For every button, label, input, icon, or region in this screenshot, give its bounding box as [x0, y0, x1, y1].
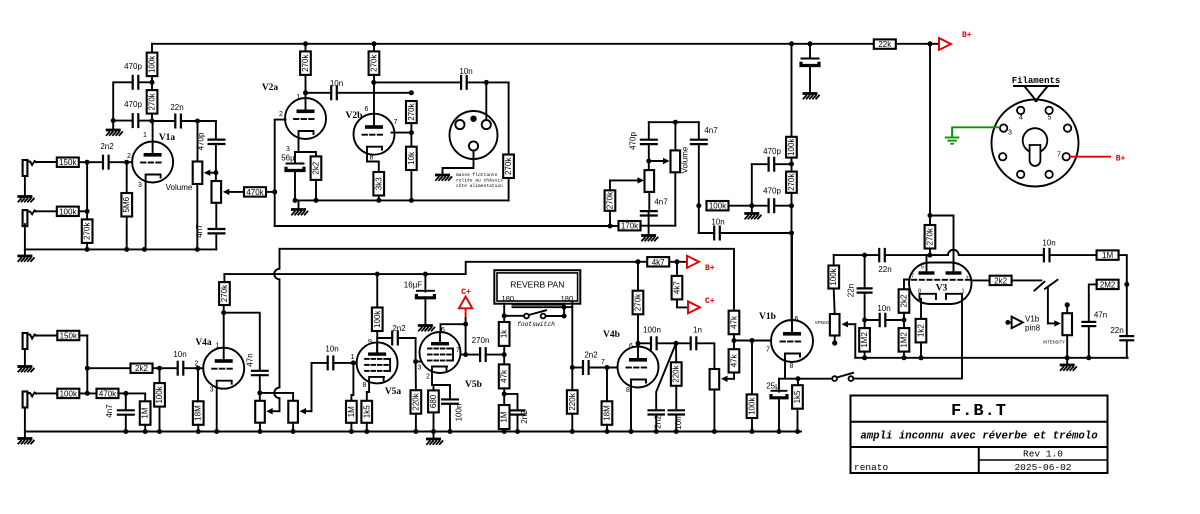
wire 270k V4b top [637, 262, 639, 291]
label 4n7 tone [195, 224, 204, 238]
svg-text:470p: 470p [629, 132, 638, 150]
svg-text:1M: 1M [141, 407, 150, 418]
wire V2b grid [392, 132, 412, 134]
svg-text:2n2: 2n2 [654, 415, 663, 429]
svg-text:F.B.T: F.B.T [951, 402, 1007, 421]
wire break to intensity [1047, 288, 1049, 324]
ground divider [744, 214, 761, 220]
svg-text:170k: 170k [621, 222, 639, 231]
node div2 [789, 203, 794, 208]
wire fb gnd stub [112, 121, 114, 130]
pin 7 V1b [766, 347, 770, 354]
label 22n trem inline [878, 265, 891, 274]
wire 2n2 to bus [517, 415, 519, 432]
svg-text:100n: 100n [455, 404, 464, 422]
socket pin upper right [1064, 124, 1071, 131]
resistor 10k V2b grid lower [406, 147, 417, 170]
resistor 2M2 trem [1097, 280, 1119, 290]
node div3 [789, 231, 794, 236]
node osc A [862, 318, 867, 323]
capacitor 100n V4b [651, 336, 657, 350]
wire gnd col mid [751, 164, 753, 206]
capacitor 4n7 tone [208, 229, 226, 233]
wire xlr pin drop [485, 82, 487, 120]
wire jack4 to 100k [36, 392, 57, 394]
potentiometer tone V1a [212, 181, 222, 203]
svg-text:270k: 270k [370, 53, 379, 71]
capacitor 470p div lower [769, 198, 775, 213]
node bus 1k2 [919, 355, 924, 360]
svg-text:10n: 10n [877, 304, 890, 313]
resistor 100k mid [707, 201, 729, 211]
label V2a [262, 83, 279, 93]
label 100n V4b [643, 326, 661, 335]
triode V1b [771, 320, 813, 362]
node V1b cathode [796, 376, 801, 381]
label V4a [195, 338, 212, 348]
potentiometer mid tone [645, 170, 655, 192]
label masse flottante l1 [456, 172, 498, 178]
svg-text:1M2: 1M2 [860, 332, 869, 348]
wire 1M V5a lead [351, 363, 353, 401]
svg-text:V2b: V2b [346, 111, 363, 121]
capacitor 470p mid [640, 140, 658, 144]
resistor 150k input3 [57, 331, 79, 341]
label INTENSITY [1043, 340, 1065, 345]
wire V2a grid riser [275, 120, 286, 226]
wire 1k2 lead [920, 299, 922, 319]
wire 680 top [433, 385, 435, 390]
wire volume pot bottom [196, 184, 198, 249]
capacitor 470p div upper [769, 157, 775, 172]
svg-text:V1a: V1a [159, 133, 176, 143]
svg-text:INTENSITY: INTENSITY [1043, 340, 1065, 345]
label masse flottante l3 [456, 183, 503, 189]
capacitor 16uF [416, 291, 434, 298]
node V2a plate [303, 90, 308, 95]
wire 2k2 row [87, 367, 130, 369]
wire V1b plate lead [791, 233, 793, 331]
wire 470k to node2 [118, 392, 126, 394]
resistor 4k7 supply [647, 257, 669, 267]
wiper arrow send pot [266, 408, 279, 414]
resistor 1M reverb [499, 405, 510, 429]
node bus 2n2 reverb [515, 429, 520, 434]
wire 170k run [610, 225, 619, 227]
wire mix pot bottom [713, 390, 715, 432]
svg-text:22n: 22n [878, 265, 891, 274]
node V5a grid [351, 360, 356, 365]
ground feedback caps [106, 130, 123, 136]
wire 10n to grid [183, 367, 203, 369]
svg-text:100k: 100k [148, 55, 157, 73]
pin 8 V2b [370, 155, 374, 162]
svg-text:2: 2 [279, 111, 283, 118]
wire 4n7 stem [125, 393, 127, 408]
wire 270n to column [486, 354, 505, 356]
wire 5M6 leads [126, 162, 128, 193]
node rail 10k [409, 198, 414, 203]
wire 2k2 to node [903, 313, 905, 328]
svg-text:1k2: 1k2 [917, 324, 926, 337]
node bus 680 [431, 429, 436, 434]
resistor 220k V4b out [671, 362, 682, 386]
wire 22n right to bus [1126, 340, 1128, 358]
wire V4a plate lead [223, 313, 225, 348]
capacitor 22n trem inline [879, 248, 885, 263]
svg-text:1M: 1M [1102, 251, 1113, 260]
label 4n7 upper [704, 126, 718, 135]
node bus 1M V5a [349, 429, 354, 434]
svg-text:680: 680 [429, 394, 438, 408]
capacitor 2n2 input [103, 155, 109, 170]
wiper arrow dry pot [300, 408, 312, 414]
label V3 [936, 284, 948, 294]
svg-text:7: 7 [394, 119, 398, 126]
wire jack2 to 100k [36, 210, 57, 212]
node bus jack [85, 247, 90, 252]
svg-text:18M: 18M [603, 405, 612, 421]
wire elco to ground [809, 65, 811, 93]
wire intensity top stub [1066, 307, 1068, 314]
svg-text:2: 2 [195, 361, 199, 368]
svg-text:3: 3 [418, 365, 422, 372]
wire 4k7v to C+ [677, 299, 687, 307]
capacitor 25u cathode [771, 391, 787, 398]
wire 100k-270k link [151, 76, 153, 90]
svg-text:2n2: 2n2 [100, 142, 114, 151]
wire trem rail [834, 254, 865, 256]
wire V2a plate drop [305, 44, 307, 52]
svg-text:270k: 270k [83, 221, 92, 239]
resistor 18M ch2 [193, 401, 204, 425]
label 470p mid [629, 132, 638, 150]
svg-text:270k: 270k [407, 102, 416, 120]
jack input 4 [23, 392, 36, 408]
svg-text:V1b: V1b [759, 312, 776, 322]
node wiper tap [213, 170, 218, 175]
wire divider col top [791, 44, 793, 137]
node feedback mid [150, 80, 155, 85]
capacitor 1n V4b [691, 336, 697, 350]
svg-text:270k: 270k [787, 173, 796, 191]
wire V3 grid lead [904, 280, 910, 290]
label 10n ch2 [173, 350, 186, 359]
wire 470p lower right [774, 205, 791, 207]
node V2b grid [409, 130, 414, 135]
resistor 1k reverb [499, 322, 510, 346]
node bus 220k V5b [413, 429, 418, 434]
wire V2b plate lead [373, 75, 375, 114]
wire 100kv to bus [159, 407, 161, 432]
node bus 1M ch2 [143, 429, 148, 434]
capacitor 2n2 V5 coupling [392, 331, 398, 346]
svg-text:180: 180 [561, 294, 574, 303]
node mix out [674, 341, 679, 346]
svg-text:470p: 470p [763, 187, 781, 196]
wire div mid2 [791, 193, 793, 321]
svg-text:3k3: 3k3 [374, 177, 383, 190]
svg-text:150k: 150k [59, 158, 77, 167]
ground 16uF [418, 326, 435, 332]
wire 1M V5a to bus [350, 423, 352, 432]
wire 270k to bus [86, 243, 88, 250]
wire 1k5 V1b to bus [797, 409, 799, 432]
wire V2 ground rail [295, 199, 509, 201]
node bus 47n [1086, 355, 1091, 360]
svg-text:8: 8 [626, 387, 630, 394]
wire elco stem [809, 44, 811, 59]
capacitor 2n2 V4b [583, 360, 589, 375]
wire divider mid [410, 123, 412, 147]
wire 18M lead [197, 368, 199, 401]
node volume top [195, 119, 200, 124]
svg-text:470p: 470p [763, 147, 781, 156]
capacitor 470p feedback upper [133, 75, 139, 90]
wire 270k tap up [609, 211, 611, 226]
node V5b plate supply [463, 322, 468, 327]
svg-text:25µ: 25µ [766, 382, 780, 391]
wire B riser [223, 274, 225, 282]
node bus 18M ch2 [196, 429, 201, 434]
pin 6 V3 [921, 265, 924, 271]
node C supply [675, 259, 680, 264]
label 2n2 V4b [584, 351, 598, 360]
tremolo switch [832, 373, 853, 381]
wire plate supply riser [223, 305, 225, 313]
wire 47k junction [733, 334, 735, 349]
svg-text:1: 1 [351, 354, 355, 361]
socket pin 5 [1045, 107, 1052, 122]
label 470p div upper [763, 147, 781, 156]
svg-text:150k: 150k [60, 332, 78, 341]
svg-text:5: 5 [1047, 115, 1051, 122]
svg-text:4n7: 4n7 [105, 404, 114, 418]
wire 270k xlr to rail [508, 178, 510, 200]
wire pot2 to 4n7 [215, 203, 217, 229]
pentode V3 dual [909, 263, 972, 305]
capacitor 10n interstage [331, 85, 337, 100]
pin 7 V5b [456, 347, 460, 354]
svg-text:2025-06-02: 2025-06-02 [1014, 462, 1071, 473]
pin 9 V5a [368, 339, 372, 346]
node pan right link [562, 305, 567, 310]
svg-text:470k: 470k [99, 389, 117, 398]
resistor 100k input4 [57, 389, 79, 399]
node V4b supply [635, 259, 640, 264]
wire 170k to gnd node [640, 225, 675, 227]
potentiometer Volume V1a [193, 162, 203, 185]
svg-text:4: 4 [1019, 115, 1023, 122]
label pin8 callout [1025, 324, 1041, 333]
wire 10n osc row [865, 319, 880, 321]
label 22n [170, 103, 183, 112]
ground under filter cap [803, 94, 820, 100]
wire V1b grid row [734, 340, 771, 342]
svg-text:47k: 47k [730, 315, 739, 329]
resistor 22k [874, 39, 896, 49]
svg-text:2k2: 2k2 [900, 294, 909, 307]
wire 16u to gnd [424, 297, 426, 324]
svg-text:100k: 100k [155, 385, 164, 403]
pin 6 V5b [441, 327, 445, 334]
node bus intensity [1065, 355, 1070, 360]
svg-text:270k: 270k [301, 53, 310, 71]
svg-text:B+: B+ [705, 264, 715, 273]
svg-text:18M: 18M [194, 405, 203, 421]
svg-text:Rev 1.0: Rev 1.0 [1023, 449, 1063, 460]
wire jack1 sleeve [24, 176, 26, 196]
wire 100k V1b lead [751, 341, 753, 395]
label V5a [385, 387, 402, 397]
svg-text:270k: 270k [926, 227, 935, 245]
resistor 100k V1a feedback [147, 53, 158, 77]
B+ arrow top right [939, 31, 972, 50]
wire V2a plate lead [305, 75, 307, 98]
label 10n trem out [1042, 239, 1055, 248]
wire 100k to node [79, 210, 87, 212]
wire 220k V4b to bus [571, 414, 573, 432]
wire 680 to bus [433, 412, 435, 431]
label C+ top [461, 288, 471, 297]
wire gnd stub mid [648, 226, 650, 235]
wire top link mid [649, 121, 699, 123]
wire 10n V4b to bus [675, 415, 677, 432]
wire dry pot bottom [292, 423, 294, 432]
pin 7 V2b [394, 119, 398, 126]
wire intensity to bus [1066, 335, 1068, 358]
label 100n V5b [455, 404, 464, 422]
potentiometer mid volume [671, 150, 681, 172]
triode V2b [354, 114, 395, 155]
svg-text:270n: 270n [472, 336, 490, 345]
svg-text:10n: 10n [173, 350, 186, 359]
resistor 270k V4b plate [633, 291, 644, 315]
node divider supply [789, 41, 794, 46]
node bus V4b cathode [629, 429, 634, 434]
node V2b plate [371, 80, 376, 85]
capacitor 270n reverb drive [480, 347, 486, 362]
capacitor 10n line out [461, 75, 467, 90]
reverb pan coil lip [513, 305, 564, 308]
capacitor 470p tone [208, 140, 226, 144]
socket pin 3 [1000, 124, 1012, 136]
svg-text:Volume: Volume [166, 183, 193, 192]
pin 3 V1a [138, 182, 142, 189]
label 16uF [404, 281, 423, 290]
wire 100n row [638, 342, 651, 344]
triode V4a [203, 348, 244, 389]
wire gnd col 4n7 [648, 211, 650, 226]
node V1b grid div [732, 338, 737, 343]
wire 220k to bus [415, 414, 417, 432]
svg-text:B+: B+ [962, 31, 972, 40]
connector XLR line out [450, 111, 498, 159]
svg-text:3: 3 [210, 387, 214, 394]
pin 1 V1a [143, 132, 147, 139]
wire 10k to rail [410, 170, 412, 200]
svg-text:1: 1 [216, 343, 220, 350]
svg-text:16µF: 16µF [404, 281, 423, 290]
node bus 100k ch2 [157, 429, 162, 434]
wire gnd stub bl [24, 432, 26, 438]
triode V1a [132, 142, 173, 183]
wire plate to 47n [224, 313, 260, 370]
pin 7 V3 [911, 274, 914, 280]
resistor 470k to V2a [244, 187, 266, 197]
wire 4n7 to bus [215, 233, 217, 249]
resistor 47k upper [729, 311, 740, 335]
wire plate to 10n xlr [374, 81, 461, 83]
svg-text:6: 6 [441, 327, 445, 334]
wire gnd stub2 [751, 206, 753, 213]
resistor 100k V5a plate [372, 308, 383, 332]
resistor 2k2 V2a cathode [311, 156, 322, 180]
wire send pot bottom [259, 423, 261, 432]
wire 270k to rail [929, 249, 931, 256]
ground V5b [426, 439, 443, 445]
resistor 270k V2b plate [369, 51, 380, 75]
wire tone chain mid [648, 144, 650, 170]
svg-text:masse flottante: masse flottante [456, 172, 498, 178]
capacitor 22n trem right [1119, 336, 1134, 340]
wire trem bottom bus [855, 357, 1127, 359]
resistor 170k [619, 221, 641, 231]
resistor 100k trem [828, 266, 839, 289]
capacitor 2n2 reverb [510, 410, 526, 414]
svg-text:2n2: 2n2 [392, 324, 406, 333]
node V3 plate branch [928, 213, 933, 218]
svg-text:10n: 10n [330, 79, 343, 88]
wire plate to 22n [152, 120, 175, 122]
wire trem rail right [1043, 254, 1044, 256]
svg-text:2k2: 2k2 [135, 364, 148, 373]
svg-text:4n7: 4n7 [195, 224, 204, 238]
wire 4k7v top [676, 262, 678, 276]
potentiometer dry level [288, 401, 298, 423]
wire B+ down column [929, 44, 931, 225]
svg-text:V4b: V4b [603, 330, 620, 340]
label V2b [346, 111, 363, 121]
svg-text:7: 7 [601, 359, 605, 366]
tremolo inject arrow [1008, 317, 1023, 329]
svg-text:100k: 100k [829, 267, 838, 285]
wire cathode row [779, 378, 832, 380]
wire mid volume top lead [674, 122, 676, 150]
wire top bus drop [151, 44, 153, 53]
node 470p gnd col [749, 203, 754, 208]
svg-text:22n: 22n [170, 103, 183, 112]
label 10n V4b lower [674, 416, 683, 429]
resistor 1M trem [1097, 250, 1119, 260]
ground jack1 [17, 197, 34, 203]
wire xlr shell to ground [443, 151, 474, 175]
pin 2 V4a [195, 361, 199, 368]
wire 5M6 bottom [126, 217, 128, 250]
resistor 100k V1b [747, 394, 758, 418]
wire 2n2 row [377, 337, 392, 339]
wire V5b cathode [432, 372, 434, 385]
node V5b screen [463, 352, 468, 357]
resistor 220k V5b grid [411, 390, 422, 414]
resistor 1k2 trem [916, 319, 927, 343]
node V4a plate [221, 310, 226, 315]
wire 56u to rail [294, 170, 296, 200]
wire 10n v1b row [699, 232, 714, 234]
potentiometer SPEED [830, 314, 840, 336]
svg-text:2: 2 [127, 153, 131, 160]
resistor 270k V2b grid upper [406, 101, 417, 123]
